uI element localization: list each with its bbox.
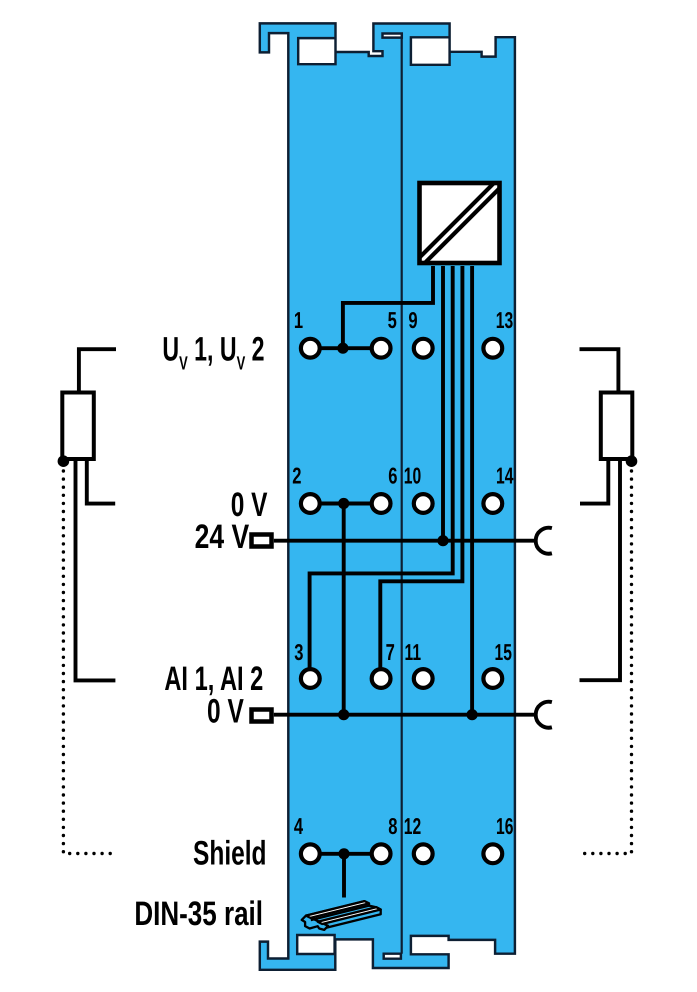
svg-text:12: 12 xyxy=(404,813,421,839)
rail body silhouette xyxy=(306,901,381,929)
node: shield junction dot xyxy=(338,848,349,859)
terminal 6 xyxy=(372,494,391,513)
module housing (two-half I/O module body, blue) xyxy=(260,23,515,969)
pin number 10 xyxy=(404,463,421,489)
terminal 4 xyxy=(301,844,320,863)
label 24 V xyxy=(195,518,250,556)
node: pin5 on 0V rail xyxy=(467,709,478,720)
svg-text:9: 9 xyxy=(408,307,417,333)
wire: S2 plus lead to Uv stub xyxy=(580,349,619,391)
S2 shield node dot xyxy=(626,455,638,467)
terminal 2 xyxy=(301,494,320,513)
0V feed terminal (open square) xyxy=(252,710,272,722)
terminal 15 xyxy=(483,669,502,688)
pin number 13 xyxy=(496,307,513,333)
wire: S1 lead to AI 1 stub xyxy=(76,460,116,680)
wire: S2 lead to AI 2 stub xyxy=(580,460,621,680)
label 0 V (row 2) xyxy=(231,486,268,524)
svg-text:11: 11 xyxy=(405,639,422,665)
S2 body xyxy=(601,393,633,460)
wire: terminal 2 to terminal 6 xyxy=(310,502,381,506)
svg-text:3: 3 xyxy=(294,639,303,665)
wire: shield node down to DIN rail xyxy=(342,854,346,898)
wire: box pin 3 to terminal 3 xyxy=(310,266,453,670)
DIN-35 rail symbol (3D rail) xyxy=(302,901,381,930)
terminal 7 xyxy=(372,669,391,688)
0V rail line xyxy=(274,713,536,717)
terminal 1 xyxy=(301,339,320,358)
svg-text:24 V: 24 V xyxy=(195,518,250,556)
wire: box pin 5 down to 0V rail xyxy=(470,266,474,715)
pin number 5 xyxy=(388,307,397,333)
label Shield xyxy=(193,835,266,873)
pin number 14 xyxy=(496,463,514,489)
pin number 4 xyxy=(294,813,303,839)
wire: S2 lead to 0V stub xyxy=(580,460,608,504)
wire: terminal 1 to terminal 5 xyxy=(310,346,381,350)
svg-text:5: 5 xyxy=(388,307,397,333)
pin number 8 xyxy=(388,813,397,839)
terminal 11 xyxy=(414,669,433,688)
terminal 16 xyxy=(483,844,502,863)
svg-text:UV 1, UV 2: UV 1, UV 2 xyxy=(162,330,264,374)
terminal 3 xyxy=(301,669,320,688)
wire: box pin 2 down to 24V rail xyxy=(441,266,445,541)
sensor S1 (left transducer) xyxy=(58,349,116,853)
svg-text:Shield: Shield xyxy=(193,835,266,873)
svg-text:1: 1 xyxy=(294,307,303,333)
S1 shield dotted drain to rail xyxy=(63,471,115,854)
terminal 9 xyxy=(414,339,433,358)
svg-text:14: 14 xyxy=(496,463,514,489)
wire: S1 lead to 0V stub xyxy=(87,460,115,504)
svg-text:0 V: 0 V xyxy=(207,692,244,730)
node: pin2 on 24V rail xyxy=(437,535,448,546)
module half divider line xyxy=(401,37,403,954)
24V rail line xyxy=(274,539,536,543)
terminal 12 xyxy=(414,844,433,863)
S1 shield node dot xyxy=(58,455,70,467)
pin number 3 xyxy=(294,639,303,665)
24V rail socket (C shape) xyxy=(536,528,552,554)
node A junction dot (1-5 wire to electronics) xyxy=(337,343,348,354)
svg-text:2: 2 xyxy=(292,463,301,489)
rail left flange top face xyxy=(306,901,369,918)
rail left flange inner edge xyxy=(311,906,369,921)
svg-text:7: 7 xyxy=(386,639,395,665)
wire: node B on 2-6 wire down to 0V rail xyxy=(342,504,346,715)
pin number 15 xyxy=(494,639,512,665)
wire: S1 plus lead to Uv stub xyxy=(79,349,116,391)
S2 shield dotted drain to rail xyxy=(580,471,632,854)
electronics block U1 (square with double diagonal) xyxy=(420,183,500,263)
sensor S2 (right transducer) xyxy=(580,349,638,853)
24V feed terminal (open square) xyxy=(252,535,272,547)
wire: box pin 1 to junction A on terminal 1-5 wire xyxy=(343,266,433,349)
terminal 8 xyxy=(372,844,391,863)
svg-text:8: 8 xyxy=(388,813,397,839)
wire: box pin 4 to terminal 7 xyxy=(380,266,462,670)
pin number 6 xyxy=(388,463,397,489)
svg-text:15: 15 xyxy=(494,639,512,665)
terminal 5 xyxy=(372,339,391,358)
svg-text:13: 13 xyxy=(496,307,513,333)
node: riser B on 0V rail xyxy=(338,709,349,720)
pin number 11 xyxy=(405,639,422,665)
svg-text:6: 6 xyxy=(388,463,397,489)
pin number 16 xyxy=(496,813,513,839)
svg-text:DIN-35 rail: DIN-35 rail xyxy=(134,895,263,933)
svg-text:10: 10 xyxy=(404,463,421,489)
pin number 7 xyxy=(386,639,395,665)
wire: terminal 4 to terminal 8 (shield) xyxy=(310,852,381,856)
label Uv 1, Uv 2 xyxy=(162,330,264,374)
rail right flange top face xyxy=(318,907,381,924)
pin number 2 xyxy=(292,463,301,489)
svg-text:16: 16 xyxy=(496,813,513,839)
rail front cross-section (hat profile) xyxy=(302,916,328,930)
S1 body xyxy=(62,393,94,460)
terminal 13 xyxy=(483,339,502,358)
svg-text:4: 4 xyxy=(294,813,303,839)
pin number 12 xyxy=(404,813,421,839)
terminal 14 xyxy=(483,494,502,513)
node B junction dot (2-6 wire to 0V) xyxy=(338,498,349,509)
label 0 V (AI minus) xyxy=(207,692,244,730)
label AI 1, AI 2 xyxy=(164,660,263,698)
0V rail socket (C shape) xyxy=(536,702,552,728)
pin number 9 xyxy=(408,307,417,333)
terminal 10 xyxy=(414,494,433,513)
label DIN-35 rail xyxy=(134,895,263,933)
pin number 1 xyxy=(294,307,303,333)
